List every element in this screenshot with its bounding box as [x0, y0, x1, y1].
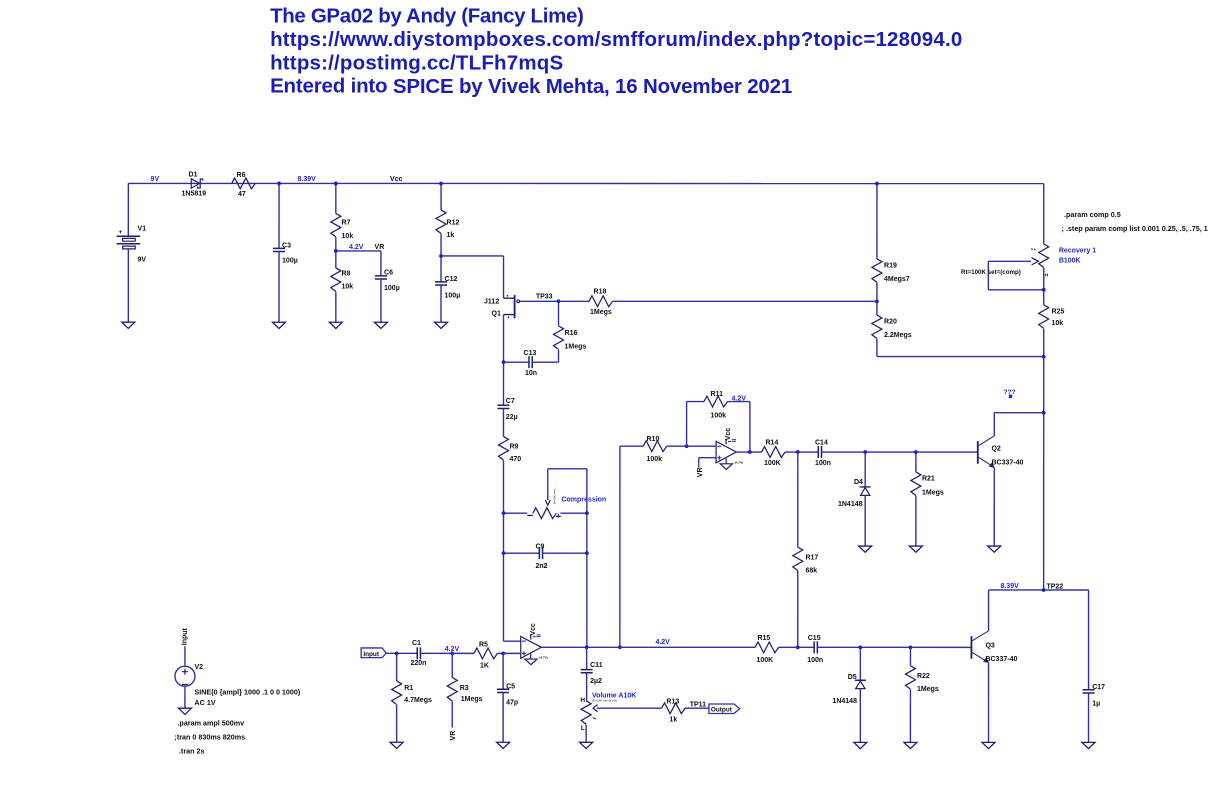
ground at V1: [122, 322, 135, 328]
svg-text:.param comp 0.5: .param comp 0.5: [1064, 210, 1121, 219]
junction R10 output row: [618, 645, 622, 649]
junction R19 top: [875, 182, 879, 186]
svg-text:1N4148: 1N4148: [832, 698, 857, 705]
diode D1 1N5819: [182, 171, 207, 197]
flag Output: [709, 704, 740, 714]
resistor R20 2.2Megs: [872, 301, 912, 356]
svg-text:47p: 47p: [506, 699, 518, 706]
svg-text:Rt=100K set=(comp): Rt=100K set=(comp): [961, 269, 1021, 276]
capacitor C9 2n2: [503, 513, 586, 570]
svg-text:R13: R13: [666, 698, 679, 705]
svg-text:SINE(0 {ampl} 1000 .1 0 0 1000: SINE(0 {ampl} 1000 .1 0 0 1000): [194, 688, 300, 697]
svg-text:; .step param comp list 0.001: ; .step param comp list 0.001 0.25, .5, …: [1062, 224, 1208, 233]
resistor R10 100k: [620, 436, 687, 647]
resistor R3 1Megs: [447, 653, 482, 727]
svg-text:Rt=10K set=..: Rt=10K set=..: [553, 487, 557, 504]
capacitor C15 100n: [807, 635, 971, 664]
junction R12 top: [439, 182, 443, 186]
svg-text:AC 1V: AC 1V: [194, 698, 215, 707]
svg-text:H: H: [580, 697, 585, 704]
svg-text:TP33: TP33: [536, 294, 553, 301]
svg-text:1Megs: 1Megs: [922, 489, 944, 496]
junction R5 C5: [501, 651, 505, 655]
ground at D5: [854, 742, 867, 748]
svg-text:D4: D4: [854, 479, 863, 486]
svg-text:Vcc: Vcc: [390, 176, 403, 183]
wire R12 to Q1 drain: [441, 255, 504, 257]
wire C9 right down to output row: [586, 553, 588, 647]
wire U1 noninverting stub VR: [699, 457, 716, 459]
svg-text:Recovery 1: Recovery 1: [1059, 247, 1096, 254]
svg-text:4.2V: 4.2V: [655, 639, 670, 646]
svg-text:;tran 0 830ms 820ms: ;tran 0 830ms 820ms: [174, 733, 245, 742]
svg-text:100µ: 100µ: [384, 285, 400, 292]
resistor R19 4Megs7: [872, 184, 910, 302]
junction Compression right: [585, 511, 589, 515]
junction C9 left: [502, 551, 506, 555]
svg-text:R19: R19: [884, 263, 897, 270]
resistor R12 1k: [436, 183, 459, 281]
svg-text:1µ: 1µ: [1092, 701, 1100, 708]
svg-text:-(4.7V): -(4.7V): [734, 460, 743, 464]
svg-text:R1: R1: [404, 685, 413, 692]
resistor R16 1Megs: [554, 301, 587, 362]
svg-text:R6: R6: [237, 172, 246, 179]
svg-text:Input: Input: [363, 651, 379, 658]
svg-text:D1: D1: [189, 171, 198, 178]
wire Q3 collector: [988, 590, 990, 631]
ground at U1 Vminus: [720, 464, 732, 470]
junction TP33: [557, 299, 561, 303]
svg-text:Vcc: Vcc: [725, 428, 732, 441]
svg-text:1K: 1K: [480, 662, 489, 669]
junction U2 output C11: [585, 645, 589, 649]
svg-text:68k: 68k: [805, 568, 817, 575]
svg-text:R9: R9: [509, 443, 518, 450]
svg-text:100n: 100n: [807, 657, 823, 664]
svg-text:R3: R3: [460, 685, 469, 692]
ground at C17: [1082, 742, 1095, 748]
svg-text:The GPa02 by Andy (Fancy Lime): The GPa02 by Andy (Fancy Lime): [270, 5, 583, 28]
resistor R9 470: [498, 436, 521, 513]
voltage source V2: [175, 646, 203, 708]
flag Input: [361, 648, 386, 658]
svg-text:R25: R25: [1052, 309, 1065, 316]
svg-text:https://www.diystompboxes.com/: https://www.diystompboxes.com/smfforum/i…: [270, 28, 962, 51]
ground at R8: [329, 322, 342, 328]
svg-text:2.2Megs: 2.2Megs: [884, 332, 912, 339]
junction R12 C12: [439, 254, 443, 258]
wire Q2 emitter: [993, 467, 995, 546]
svg-text:Entered into SPICE by Vivek Me: Entered into SPICE by Vivek Mehta, 16 No…: [270, 75, 792, 98]
svg-text:100n: 100n: [815, 460, 831, 467]
svg-text:R20: R20: [884, 319, 897, 326]
wire R20 bottom to right rail: [877, 356, 1044, 358]
junction R19 R20: [875, 299, 879, 303]
svg-text:R15: R15: [757, 635, 770, 642]
svg-text:8.39V: 8.39V: [298, 176, 317, 183]
junction Recovery wiper bottom: [1042, 288, 1046, 292]
ground at C6: [374, 322, 387, 328]
svg-text:100k: 100k: [646, 456, 662, 463]
svg-text:VR: VR: [450, 731, 457, 741]
svg-text:470: 470: [509, 456, 521, 463]
wire Q1 source down: [503, 315, 505, 363]
svg-text:R11: R11: [711, 391, 724, 398]
svg-text:Vcc: Vcc: [530, 623, 537, 636]
svg-text:Rt=10K set=(1-vol): Rt=10K set=(1-vol): [592, 699, 617, 703]
svg-text:R12: R12: [447, 219, 460, 226]
resistor R15 100K: [755, 635, 814, 664]
wire Q1 gate to TP33: [520, 300, 559, 302]
capacitor C1 220n: [410, 640, 452, 667]
svg-text:C15: C15: [808, 635, 821, 642]
junction R7 top: [334, 182, 338, 186]
wire U1 output: [736, 451, 761, 453]
svg-text:D5: D5: [848, 674, 857, 681]
svg-text:9V: 9V: [151, 176, 160, 183]
wire right rail lower: [1043, 357, 1045, 590]
svg-text:1k: 1k: [447, 232, 455, 239]
junction C9 right: [585, 551, 589, 555]
svg-text:TP22: TP22: [1046, 583, 1063, 590]
svg-text:C1: C1: [412, 640, 421, 647]
svg-text:8.39V: 8.39V: [1000, 583, 1019, 590]
junction U1 input R10 R11: [685, 444, 689, 448]
ground at D4: [859, 546, 872, 552]
svg-text:10n: 10n: [525, 370, 537, 377]
ground at Q2 emitter: [988, 546, 1001, 552]
junction Input R1: [395, 651, 399, 655]
svg-text:R22: R22: [917, 673, 930, 680]
svg-text:C5: C5: [506, 683, 515, 690]
ground at U2 Vminus: [525, 659, 537, 665]
svg-text:100k: 100k: [710, 412, 726, 419]
svg-text:https://postimg.cc/TLFh7mqS: https://postimg.cc/TLFh7mqS: [270, 51, 563, 74]
potentiometer Recovery 1 B100K: [988, 244, 1048, 290]
svg-text:J112: J112: [484, 298, 499, 305]
ground at R22: [904, 742, 917, 748]
svg-text:C7: C7: [506, 398, 515, 405]
svg-text:BC337-40: BC337-40: [991, 459, 1023, 466]
junction Q2 collector right rail: [1042, 411, 1046, 415]
capacitor C3 100u: [273, 183, 298, 322]
junction R14 R17: [796, 450, 800, 454]
svg-text:VR: VR: [375, 244, 385, 251]
resistor R5 1K: [452, 641, 521, 669]
svg-text:R21: R21: [922, 476, 935, 483]
transistor Q1 J112 JFET: [484, 295, 520, 318]
svg-text:TP11: TP11: [690, 701, 706, 708]
svg-text:1Megs: 1Megs: [590, 309, 612, 316]
svg-text:R5: R5: [479, 641, 488, 648]
svg-text:22µ: 22µ: [506, 414, 518, 421]
transistor Q2 BC337-40: [978, 436, 1024, 468]
junction C15 D5: [858, 645, 862, 649]
svg-text:1Megs: 1Megs: [461, 696, 483, 703]
ground at C3: [273, 322, 286, 328]
diode D5 1N4148: [832, 647, 865, 742]
battery V1: [117, 183, 147, 322]
svg-text:220n: 220n: [410, 660, 426, 667]
junction Compression left: [502, 511, 506, 515]
svg-text:C11: C11: [590, 662, 603, 669]
svg-text:4Megs7: 4Megs7: [884, 276, 910, 283]
svg-text:100K: 100K: [756, 657, 773, 664]
junction C14 D4: [863, 450, 867, 454]
svg-text:10k: 10k: [1052, 320, 1064, 327]
capacitor C12 100u: [435, 276, 460, 322]
junction right rail R20: [1042, 355, 1046, 359]
resistor R18 1Megs: [559, 288, 877, 316]
junction R17 bottom: [796, 645, 800, 649]
capacitor C5 47p: [497, 653, 518, 742]
svg-text:1N4148: 1N4148: [838, 501, 863, 508]
wire U1 inverting input: [687, 445, 717, 447]
svg-text:C17: C17: [1092, 684, 1105, 691]
resistor R13 1k: [662, 698, 709, 723]
svg-text:Q1: Q1: [492, 310, 501, 317]
svg-text:2n2: 2n2: [535, 563, 547, 570]
svg-text:Q3: Q3: [985, 642, 994, 649]
wire 4.2V to C6: [336, 250, 381, 252]
wire Q2 collector: [993, 413, 995, 436]
junction Q3 collector right rail: [1042, 588, 1046, 592]
svg-text:-(4.7V): -(4.7V): [538, 656, 547, 660]
svg-text:.tran 2s: .tran 2s: [179, 747, 205, 756]
op-amp U2: [521, 623, 548, 660]
svg-text:10k: 10k: [342, 233, 354, 240]
svg-text:1Megs: 1Megs: [917, 686, 939, 693]
capacitor C13 10n: [504, 350, 559, 377]
wire Input flag to C1: [386, 652, 417, 654]
svg-text:1N5819: 1N5819: [182, 190, 207, 197]
resistor R1 4.7Megs: [392, 653, 432, 742]
resistor R6 47: [232, 172, 256, 198]
svg-text:C14: C14: [815, 439, 828, 446]
potentiometer Volume A10K: [580, 697, 661, 743]
capacitor C7 22u: [497, 362, 517, 436]
svg-text:Compression: Compression: [561, 496, 606, 503]
svg-text:R18: R18: [594, 288, 607, 295]
resistor R14 100K: [762, 439, 819, 467]
svg-text:100µ: 100µ: [445, 292, 461, 299]
svg-text:B100K: B100K: [1059, 257, 1081, 264]
svg-text:4.2V: 4.2V: [349, 244, 364, 251]
svg-text:VR: VR: [697, 467, 704, 477]
svg-text:C6: C6: [384, 269, 393, 276]
ground at Volume: [580, 742, 593, 748]
junction R7 R8: [334, 249, 338, 253]
wire Q3 emitter: [988, 663, 990, 743]
svg-text:R16: R16: [565, 330, 578, 337]
resistor R8 10k: [331, 251, 354, 322]
capacitor C17 1u: [1083, 590, 1106, 742]
diode D4 1N4148: [838, 452, 871, 546]
svg-text:C9: C9: [535, 544, 544, 551]
svg-text:C12: C12: [445, 276, 458, 283]
svg-text:.param ampl 500mv: .param ampl 500mv: [177, 719, 244, 728]
capacitor C6 100u: [375, 251, 400, 322]
op-amp U1: [716, 428, 743, 465]
wire U2 output row: [541, 646, 755, 648]
wire Vcc top rail: [128, 182, 1043, 184]
svg-text:R10: R10: [646, 436, 659, 443]
junction C15 R22: [909, 645, 913, 649]
resistor R11 100k: [687, 391, 750, 452]
ground at R1: [390, 742, 403, 748]
ground at R21: [909, 546, 922, 552]
resistor R25 10k: [1039, 305, 1065, 329]
transistor Q3 BC337-40: [971, 631, 1017, 663]
svg-text:4.2V: 4.2V: [731, 395, 746, 402]
resistor R21 1Megs: [911, 452, 944, 546]
svg-text:C3: C3: [282, 242, 291, 249]
resistor R7 10k: [331, 183, 354, 251]
svg-text:C13: C13: [524, 350, 537, 357]
svg-text:100µ: 100µ: [282, 257, 298, 264]
svg-text:V1: V1: [138, 225, 147, 232]
svg-text:R8: R8: [342, 270, 351, 277]
svg-text:+: +: [119, 229, 123, 236]
wire right rail mid: [1043, 268, 1045, 305]
svg-text:4.7Megs: 4.7Megs: [404, 697, 432, 704]
capacitor C14 100n: [815, 439, 978, 467]
svg-text:Output: Output: [711, 706, 733, 713]
svg-text:L: L: [581, 725, 585, 732]
svg-text:R7: R7: [342, 219, 351, 226]
svg-text:R17: R17: [805, 555, 818, 562]
ground at Q3 emitter: [982, 742, 995, 748]
svg-text:1Megs: 1Megs: [565, 343, 587, 350]
junction C13 left: [502, 360, 506, 364]
svg-text:47: 47: [238, 191, 246, 198]
potentiometer Compression: [503, 469, 586, 519]
svg-text:H: H: [1045, 272, 1048, 277]
resistor R17 68k: [793, 452, 819, 647]
ground at C12: [435, 322, 448, 328]
resistor R22 1Megs: [905, 647, 938, 742]
junction C3 top: [277, 182, 281, 186]
junction C1 R3: [450, 651, 454, 655]
svg-text:R14: R14: [765, 439, 778, 446]
junction C14 R21: [914, 450, 918, 454]
svg-text:100K: 100K: [764, 460, 781, 467]
svg-text:V2: V2: [194, 664, 203, 671]
svg-text:1k: 1k: [669, 717, 677, 724]
svg-text:9V: 9V: [138, 256, 147, 263]
ground at C5: [497, 742, 510, 748]
svg-text:Input: Input: [182, 627, 189, 645]
svg-text:2µ2: 2µ2: [590, 678, 602, 685]
junction U1 output R11: [748, 450, 752, 454]
svg-text:10k: 10k: [342, 283, 354, 290]
capacitor C11 2u2: [581, 647, 603, 701]
svg-text:BC337-40: BC337-40: [985, 656, 1017, 663]
wire right rail top: [1043, 184, 1045, 244]
svg-text:Q2: Q2: [991, 445, 1000, 452]
wire C9 left to opamp U2 inverting input: [502, 553, 504, 641]
ground at V2: [178, 708, 191, 714]
